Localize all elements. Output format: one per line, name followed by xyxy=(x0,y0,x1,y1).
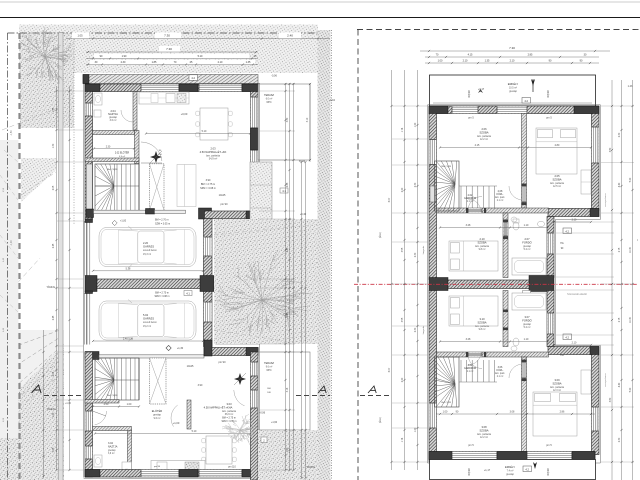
svg-text:5.20: 5.20 xyxy=(630,177,632,182)
balcony arrow xyxy=(531,79,535,86)
entry partition wall xyxy=(187,400,191,429)
svg-text:34,9 m²: 34,9 m² xyxy=(209,158,218,161)
svg-text:greslap: greslap xyxy=(108,449,116,452)
svg-text:15,3 m²: 15,3 m² xyxy=(143,253,151,256)
svg-text:2.30: 2.30 xyxy=(106,147,111,149)
svg-text:HG: HG xyxy=(560,243,564,245)
svg-text:1.65: 1.65 xyxy=(53,447,55,452)
svg-text:5.02: 5.02 xyxy=(143,313,149,317)
svg-text:1.20: 1.20 xyxy=(415,122,417,127)
void X-box bottom unit xyxy=(150,358,167,404)
door arc room 2.06 xyxy=(468,197,482,209)
right left wall light segment xyxy=(430,186,436,202)
svg-text:cserepeslemez: cserepeslemez xyxy=(604,373,607,387)
svg-text:IP2|IR2: IP2|IR2 xyxy=(469,467,471,475)
svg-text:12.2 m²: 12.2 m² xyxy=(480,138,488,141)
extension lines left margin right plan xyxy=(392,106,428,462)
left plan top dimension row 3 xyxy=(94,54,249,59)
svg-text:2.20: 2.20 xyxy=(402,187,404,192)
svg-text:TÁMFAL: TÁMFAL xyxy=(46,408,56,411)
left plan top dimension row 2 xyxy=(159,46,180,53)
entry door arc xyxy=(171,405,178,427)
svg-text:Szomszédi elászló: Szomszédi elászló xyxy=(567,293,587,296)
svg-text:2.86: 2.86 xyxy=(560,411,565,414)
garage B bottom thin wall xyxy=(99,355,204,358)
dim chains right margin right plan xyxy=(611,80,613,480)
svg-text:greslap: greslap xyxy=(509,90,518,93)
north star symbol xyxy=(150,151,162,163)
svg-text:2.10: 2.10 xyxy=(463,60,468,63)
hall thin wall 2 xyxy=(155,210,186,213)
terrain stipple patch left margin mid xyxy=(21,158,56,202)
svg-text:SZOBA: SZOBA xyxy=(477,320,486,324)
svg-text:2.30: 2.30 xyxy=(619,132,621,137)
svg-text:(Étsz): (Étsz) xyxy=(379,232,382,238)
top wall window 1 xyxy=(141,84,179,91)
extension lines left margin left plan xyxy=(57,91,84,470)
svg-text:9.8 m²: 9.8 m² xyxy=(479,248,486,251)
svg-text:5.20: 5.20 xyxy=(630,387,632,392)
left plan top dimension row 4 xyxy=(90,60,255,65)
bathtub lower xyxy=(512,293,546,310)
svg-text:lungarde: lungarde xyxy=(422,245,425,254)
svg-text:5.10: 5.10 xyxy=(202,130,207,133)
right plot dashed boundary vertical xyxy=(357,30,359,480)
svg-text:4.2: 4.2 xyxy=(524,99,528,103)
svg-text:-1,00: -1,00 xyxy=(11,240,13,246)
section line dashes right of left plan xyxy=(296,395,330,397)
svg-text:1.74: 1.74 xyxy=(402,437,404,442)
svg-text:pm 5: pm 5 xyxy=(468,444,474,447)
svg-text:3.07: 3.07 xyxy=(524,315,530,319)
balcony bottom arrow xyxy=(533,462,537,469)
svg-text:HG: HG xyxy=(560,355,564,357)
wardrobe 2.05 xyxy=(581,170,591,194)
top section step wall xyxy=(205,211,259,219)
tree large right of garages xyxy=(216,250,312,336)
section line dashes left xyxy=(44,395,84,397)
right building bottom wall xyxy=(429,452,595,460)
svg-text:szerelt beton: szerelt beton xyxy=(143,321,157,324)
central wall door gap B xyxy=(204,302,212,322)
bed room 2.05 xyxy=(536,128,577,174)
section A marker right plan xyxy=(368,386,376,393)
room dim line lower xyxy=(436,413,595,415)
svg-text:WPC: WPC xyxy=(266,102,272,104)
tree top-left xyxy=(19,27,72,84)
svg-text:2.45: 2.45 xyxy=(53,243,55,248)
central wall door gap A xyxy=(204,237,212,256)
svg-text:9.6 m²: 9.6 m² xyxy=(266,365,273,368)
level +1.30 garage B xyxy=(166,345,171,350)
svg-text:12.3 m²: 12.3 m² xyxy=(553,389,561,392)
svg-text:+1,17: +1,17 xyxy=(484,469,491,472)
right building exterior outline xyxy=(428,105,601,463)
svg-text:12.2 m²: 12.2 m² xyxy=(480,436,488,439)
svg-text:3.55: 3.55 xyxy=(402,247,404,252)
washbasin corridor upper xyxy=(511,217,517,222)
retaining wall thick dashed line xyxy=(18,33,20,480)
hedge stipple strip between plans xyxy=(318,30,331,480)
red neighbour line xyxy=(354,283,638,285)
dim step lower xyxy=(554,344,591,346)
hall wall pier xyxy=(146,209,155,215)
svg-text:3.10: 3.10 xyxy=(479,317,485,321)
svg-text:pm 90: pm 90 xyxy=(219,361,227,364)
stair right plan lower xyxy=(435,357,498,407)
svg-text:2.10: 2.10 xyxy=(572,219,577,222)
right wall bottom window xyxy=(592,407,599,431)
dim chain x44 bottom xyxy=(43,330,45,478)
right building left wall lower xyxy=(429,291,437,463)
entry dim upper xyxy=(94,148,134,150)
svg-text:SZM = 3.08 m: SZM = 3.08 m xyxy=(154,295,169,298)
svg-text:3.08: 3.08 xyxy=(481,425,487,429)
door gap partition 205 xyxy=(522,186,526,202)
svg-text:4.15: 4.15 xyxy=(468,54,473,57)
boxed label 4.1 right xyxy=(280,188,288,193)
svg-text:GARÁZS: GARÁZS xyxy=(143,317,154,321)
svg-text:3.55: 3.55 xyxy=(402,317,404,322)
bath door upper xyxy=(504,222,508,236)
svg-text:TERASZ: TERASZ xyxy=(264,362,274,365)
svg-text:18x17,6|28: 18x17,6|28 xyxy=(107,395,119,397)
svg-text:TÁMFAL: TÁMFAL xyxy=(46,286,56,289)
svg-text:pm 5: pm 5 xyxy=(546,444,552,447)
terrace bottom-right outline xyxy=(258,352,310,430)
svg-text:lam. park.: lam. park. xyxy=(495,196,505,199)
svg-text:3.90: 3.90 xyxy=(206,179,211,182)
washbasin upper xyxy=(538,221,545,227)
terrain stipple right of garages xyxy=(214,219,318,344)
stair right plan upper xyxy=(435,161,498,211)
stair B fan xyxy=(95,358,139,400)
garage A car xyxy=(99,226,196,268)
svg-text:2.1 m²: 2.1 m² xyxy=(497,375,504,378)
right plan top dimension row 3 xyxy=(425,62,599,64)
svg-text:2.20: 2.20 xyxy=(143,241,149,245)
svg-text:2.30: 2.30 xyxy=(619,437,621,442)
central wall between garage and terrain xyxy=(204,219,213,347)
door arc room 3.08 xyxy=(468,357,482,369)
partition between 3.08 and 3.09 xyxy=(522,357,527,455)
door gap corridor xyxy=(468,208,482,212)
door gap partition lower xyxy=(522,362,526,378)
svg-text:2.50: 2.50 xyxy=(104,403,109,406)
pillar living corner xyxy=(199,208,212,219)
svg-text:2.30: 2.30 xyxy=(121,61,126,64)
door gap corridor lower xyxy=(468,352,482,356)
svg-text:SZOBA: SZOBA xyxy=(479,130,488,134)
room dim line upper xyxy=(440,147,591,149)
terrain slope dashed diagonals bottom-left xyxy=(0,330,64,408)
svg-text:2.75: 2.75 xyxy=(619,247,621,252)
svg-text:2.40: 2.40 xyxy=(287,34,293,38)
svg-text:+1,30: +1,30 xyxy=(177,347,184,350)
extension lines middle right section xyxy=(556,222,614,345)
svg-text:+1,00: +1,00 xyxy=(65,403,72,405)
svg-text:1.35: 1.35 xyxy=(485,60,490,63)
svg-text:1.30: 1.30 xyxy=(53,143,55,148)
partition corridor bath lower xyxy=(503,291,508,347)
svg-text:1.74: 1.74 xyxy=(402,127,404,132)
right building right wall top section xyxy=(592,114,600,211)
svg-text:pm 110: pm 110 xyxy=(228,467,236,469)
svg-text:lam. park.: lam. park. xyxy=(495,372,505,375)
left plan top dimension row 1 xyxy=(155,33,181,40)
void X-box top unit xyxy=(150,164,165,211)
party wall right building xyxy=(429,278,448,291)
retaining wall double line TAMFAL xyxy=(59,33,64,480)
balcony top outline xyxy=(430,75,596,106)
stair A fan xyxy=(95,164,139,212)
svg-text:9.6 m²: 9.6 m² xyxy=(154,417,161,420)
bed room 2.10 xyxy=(449,241,498,271)
svg-text:IP2|IR2: IP2|IR2 xyxy=(548,467,550,475)
svg-text:2.45: 2.45 xyxy=(287,247,289,252)
toilet lower xyxy=(513,338,519,346)
svg-text:2.10: 2.10 xyxy=(510,60,515,63)
section A marker right side of left plan xyxy=(318,386,326,393)
room 2.04 partition horizontal xyxy=(93,131,135,135)
svg-text:2.10: 2.10 xyxy=(572,342,577,345)
boxed 4.2 mid xyxy=(563,228,572,234)
svg-text:TÁMFAL: TÁMFAL xyxy=(306,466,316,469)
svg-text:szerelt beton: szerelt beton xyxy=(143,249,157,252)
svg-text:3.08: 3.08 xyxy=(510,411,515,414)
party wall between garages xyxy=(97,279,205,289)
svg-text:1.10: 1.10 xyxy=(524,338,529,341)
pillar bottom section xyxy=(204,340,212,356)
right left wall window 1 xyxy=(429,140,436,165)
sheet top border line xyxy=(0,1,640,3)
terrace top-right outline xyxy=(258,84,310,160)
right wall upper window bottom section xyxy=(251,362,258,376)
svg-text:5.2 m²: 5.2 m² xyxy=(524,326,531,329)
svg-text:2.30: 2.30 xyxy=(415,252,417,257)
bottom wall window 2 xyxy=(199,470,242,477)
washbasin corridor lower xyxy=(511,346,517,351)
svg-text:GARDRÓB: GARDRÓB xyxy=(464,367,476,370)
svg-text:1.43: 1.43 xyxy=(628,85,633,88)
garage B car xyxy=(99,300,196,342)
svg-text:2.06: 2.06 xyxy=(481,127,487,131)
terrain stipple bottom-left xyxy=(0,344,64,480)
svg-text:TERASZ: TERASZ xyxy=(264,94,274,97)
svg-text:BM = 2.75 m: BM = 2.75 m xyxy=(201,183,215,186)
boxed 4.2 mid lower xyxy=(563,334,572,340)
svg-text:1.10: 1.10 xyxy=(524,224,529,227)
svg-text:1.20: 1.20 xyxy=(53,412,55,417)
room dim line mid lower xyxy=(440,341,548,343)
extension lines right margin left plan xyxy=(259,84,295,470)
tree small below xyxy=(222,414,256,445)
kitchen counter xyxy=(139,92,189,104)
svg-text:cserepeslemez: cserepeslemez xyxy=(604,193,607,207)
dining table bottom unit xyxy=(202,436,236,464)
svg-text:10.30: 10.30 xyxy=(630,316,632,322)
driveway flat area bottom-left xyxy=(0,330,64,408)
svg-text:2.03: 2.03 xyxy=(210,147,216,151)
stair B rail xyxy=(138,358,140,400)
toilet upper xyxy=(513,222,519,230)
svg-text:+1,00: +1,00 xyxy=(173,421,180,425)
svg-text:1.00: 1.00 xyxy=(443,411,448,414)
middle right wall lower window xyxy=(547,313,553,334)
svg-text:IP2|IR2: IP2|IR2 xyxy=(469,89,471,97)
left wall garage B door xyxy=(84,293,91,345)
right wall glass door xyxy=(251,150,258,178)
top wall window 2 xyxy=(199,84,242,91)
svg-text:7.30: 7.30 xyxy=(166,47,172,51)
dim chains left margin of left building xyxy=(56,86,58,470)
svg-text:KÖZL.: KÖZL. xyxy=(497,193,504,196)
step wall right building top xyxy=(548,209,599,217)
middle right wall window xyxy=(547,233,553,254)
svg-text:2.20: 2.20 xyxy=(402,377,404,382)
plot boundary dash-dot vertical left xyxy=(7,33,9,480)
room 3.04 partition vertical xyxy=(128,430,132,477)
svg-text:-1,80: -1,80 xyxy=(11,130,13,136)
svg-text:12.5 m²: 12.5 m² xyxy=(553,185,561,188)
svg-text:+0,00: +0,00 xyxy=(181,112,188,116)
svg-text:SZM = 3.05 m: SZM = 3.05 m xyxy=(155,223,170,226)
bottom wall window 1 xyxy=(141,470,179,477)
terrace steps block xyxy=(250,162,272,230)
right top wall window 1 xyxy=(452,106,478,113)
plot boundary dash-dot horizontal top xyxy=(8,32,332,34)
middle right wall xyxy=(547,217,554,278)
garage B door jamb xyxy=(85,291,93,294)
svg-text:3.80: 3.80 xyxy=(610,147,612,152)
boxed 4.1 below party wall right plan xyxy=(523,291,531,297)
fence dotted line right of hedge xyxy=(331,30,333,480)
stair A enclosure wall xyxy=(85,158,139,162)
right wall bottom section xyxy=(251,352,259,480)
room 3.04 partition horizontal xyxy=(93,427,132,431)
svg-text:7.30: 7.30 xyxy=(509,46,515,50)
svg-text:2.80: 2.80 xyxy=(555,144,560,147)
dim chains left margin right plan xyxy=(391,70,393,470)
svg-text:3.28: 3.28 xyxy=(466,338,471,341)
living dim 5.10 xyxy=(146,133,250,135)
svg-text:3.09: 3.09 xyxy=(554,378,560,382)
svg-text:IP2|IR2: IP2|IR2 xyxy=(548,89,550,97)
boxed 4.2 top xyxy=(522,98,531,104)
entry dim xyxy=(93,406,139,408)
svg-text:+0,96: +0,96 xyxy=(259,412,266,415)
right right wall window xyxy=(592,127,599,163)
room 3.04 fixtures xyxy=(94,455,102,467)
svg-text:sz: sz xyxy=(637,239,639,241)
svg-text:3.16: 3.16 xyxy=(287,387,289,392)
svg-text:3.28: 3.28 xyxy=(466,224,471,227)
right wall window upper xyxy=(251,97,258,128)
svg-text:1.85: 1.85 xyxy=(152,61,157,64)
svg-text:WPC: WPC xyxy=(266,370,272,372)
garage interior dim line xyxy=(93,270,203,272)
svg-text:3.90: 3.90 xyxy=(198,384,203,387)
left building top wall xyxy=(85,84,258,92)
svg-text:2.07: 2.07 xyxy=(524,237,530,241)
boxed label 2 bottom-right xyxy=(261,437,267,443)
svg-text:2.28: 2.28 xyxy=(287,182,289,187)
svg-text:pm 5: pm 5 xyxy=(546,117,552,120)
svg-text:lungarde: lungarde xyxy=(422,325,425,334)
room dim line mid upper xyxy=(440,227,548,229)
right plan top dimension row 2 xyxy=(425,56,599,58)
dim chain x305 xyxy=(305,162,307,478)
svg-text:5.10: 5.10 xyxy=(198,55,203,58)
svg-text:pm 90: pm 90 xyxy=(221,203,229,206)
svg-text:18x17,6|28: 18x17,6|28 xyxy=(441,402,452,404)
svg-text:6.0 m²: 6.0 m² xyxy=(266,97,273,100)
svg-text:NAZTJA: NAZTJA xyxy=(108,445,118,448)
bed room 3.09 xyxy=(533,392,577,436)
party wall right junction xyxy=(200,276,214,292)
svg-text:6.07: 6.07 xyxy=(389,367,391,372)
svg-text:6.07: 6.07 xyxy=(389,197,391,202)
interior wall below bedrooms xyxy=(437,208,549,213)
hall wall left block xyxy=(86,209,94,218)
svg-text:3.6 m²: 3.6 m² xyxy=(110,119,117,122)
left wall bottom section xyxy=(85,352,93,477)
svg-text:pm 5: pm 5 xyxy=(468,117,474,120)
garage B bottom wall block xyxy=(85,352,99,360)
svg-text:1.55: 1.55 xyxy=(53,107,55,112)
tall glazing living room xyxy=(177,165,196,207)
bottom wall window 2 right xyxy=(527,452,572,459)
kitchen counter bottom xyxy=(151,461,205,473)
svg-text:SZOBA: SZOBA xyxy=(479,428,488,432)
left building bottom wall xyxy=(85,470,258,478)
terrain contour lines right of garages xyxy=(214,226,300,235)
right plot dashed boundary horizontal xyxy=(357,29,640,31)
svg-text:4.2: 4.2 xyxy=(191,76,195,80)
svg-text:4.40: 4.40 xyxy=(619,182,621,187)
left building right wall upper xyxy=(251,92,259,212)
terrain stipple bottom-right of left building xyxy=(258,430,318,480)
partition corridor bath upper xyxy=(503,213,508,278)
dining table top unit xyxy=(196,108,232,140)
svg-text:2.30: 2.30 xyxy=(415,327,417,332)
left wall window small xyxy=(85,103,92,116)
svg-text:2.45: 2.45 xyxy=(53,315,55,320)
interior dim line bottom living xyxy=(95,433,250,435)
svg-text:15,2 m²: 15,2 m² xyxy=(143,325,151,328)
bottom section step wall xyxy=(204,348,258,356)
right wall bottom section xyxy=(592,355,600,455)
svg-text:1.20: 1.20 xyxy=(415,427,417,432)
svg-text:5.2 m²: 5.2 m² xyxy=(524,248,531,251)
svg-text:4.1: 4.1 xyxy=(186,291,190,295)
svg-text:BM = 2.70 m: BM = 2.70 m xyxy=(155,219,169,222)
dim 2.10 step xyxy=(554,221,591,223)
svg-text:18x17,6|28: 18x17,6|28 xyxy=(107,169,119,171)
svg-text:4.2: 4.2 xyxy=(565,229,569,233)
svg-text:1.60: 1.60 xyxy=(287,447,289,452)
left edge light terrain strip xyxy=(0,140,19,480)
right building left wall xyxy=(429,114,437,280)
svg-text:+0,40: +0,40 xyxy=(300,213,307,216)
right building top wall xyxy=(429,106,599,114)
svg-text:SZOBA: SZOBA xyxy=(552,177,561,181)
svg-text:3.80: 3.80 xyxy=(610,397,612,402)
room 2.04 door xyxy=(121,110,133,122)
svg-text:1.00: 1.00 xyxy=(438,60,443,63)
svg-text:10x25: 10x25 xyxy=(187,365,194,368)
entrance door arcs xyxy=(95,411,107,425)
